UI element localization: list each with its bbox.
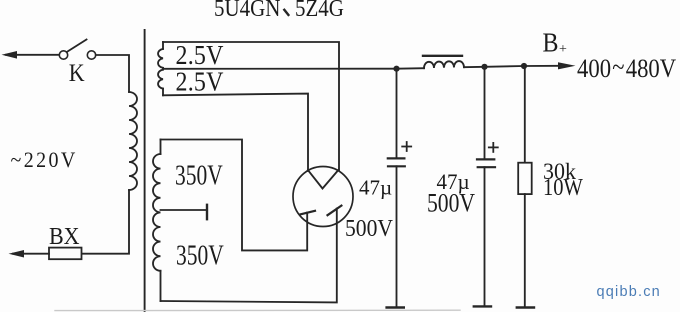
B+ rail (cathode tap to output) xyxy=(163,67,424,70)
bleeder resistor R1 body xyxy=(518,163,532,194)
capacitor C2 bottom lead xyxy=(484,167,486,306)
HV secondary 350V winding (center-tapped) xyxy=(153,140,161,302)
center tap terminal bar xyxy=(206,205,208,219)
svg-text:2.5V: 2.5V xyxy=(176,66,224,97)
ideographic comma in title xyxy=(284,10,288,15)
capacitor C2 top lead xyxy=(484,67,486,160)
switch K xyxy=(59,40,95,60)
center tap lead xyxy=(161,209,208,211)
junction node resistor/rail xyxy=(521,63,527,69)
junction node cap2/rail xyxy=(481,64,487,70)
wire switch to transformer primary xyxy=(96,55,129,92)
svg-text:47µ: 47µ xyxy=(359,176,392,200)
output arrow B+ xyxy=(558,62,576,69)
transformer core xyxy=(144,30,146,312)
svg-text:5U4GN: 5U4GN xyxy=(214,0,280,21)
secondary 2.5V winding b xyxy=(158,70,163,96)
wire 350V bottom to right anode xyxy=(161,209,337,303)
svg-text:500V: 500V xyxy=(427,189,475,219)
svg-text:K: K xyxy=(69,60,85,88)
svg-text:5Z4G: 5Z4G xyxy=(295,0,344,21)
capacitor C1 top lead xyxy=(396,69,398,159)
filter choke core bar xyxy=(423,55,462,57)
wire 2.5V top to filament right xyxy=(163,42,339,171)
AC input lead L (arrow left) xyxy=(2,51,60,59)
capacitor C1 ground bar xyxy=(387,306,404,308)
label B+ xyxy=(543,27,568,58)
wire 2.5V bottom to filament left xyxy=(163,94,308,171)
secondary 2.5V winding a xyxy=(158,42,163,68)
scan artifact line bottom xyxy=(55,309,460,311)
resistor R1 ground bar xyxy=(517,306,534,308)
filter choke L xyxy=(424,61,464,68)
svg-text:10W: 10W xyxy=(543,173,584,200)
svg-text:qqibb.cn: qqibb.cn xyxy=(597,284,661,300)
svg-text:350V: 350V xyxy=(175,161,223,191)
transformer primary winding xyxy=(129,92,137,190)
junction node cap1/rail xyxy=(393,66,399,72)
svg-text:500V: 500V xyxy=(345,215,393,241)
capacitor C2 polarity + xyxy=(489,143,498,152)
bleeder resistor R1 bottom lead xyxy=(524,194,526,307)
svg-text:B: B xyxy=(543,27,559,58)
wire 350V top to left anode xyxy=(161,140,308,251)
svg-text:~220V: ~220V xyxy=(11,147,78,172)
filament of tube xyxy=(308,170,339,189)
bleeder resistor R1 top lead xyxy=(524,66,526,163)
AC input lead N (arrow left) xyxy=(9,250,50,258)
svg-text:+: + xyxy=(559,42,567,57)
svg-text:350V: 350V xyxy=(176,241,224,271)
rectifier tube V1 envelope xyxy=(293,167,353,227)
capacitor C1 plates xyxy=(388,158,405,166)
capacitor C2 ground bar xyxy=(474,305,491,307)
title tube types 5U4GN / 5Z4G xyxy=(214,0,344,21)
fuse BX xyxy=(49,248,82,260)
svg-text:BX: BX xyxy=(49,223,80,250)
capacitor C1 polarity + xyxy=(402,142,411,151)
anode plate right xyxy=(328,206,342,216)
capacitor C1 bottom lead xyxy=(396,166,398,307)
capacitor C2 plates xyxy=(477,159,495,167)
svg-text:400~480V: 400~480V xyxy=(577,53,676,83)
wire primary bottom to fuse xyxy=(82,190,130,254)
anode plate left xyxy=(301,211,315,215)
